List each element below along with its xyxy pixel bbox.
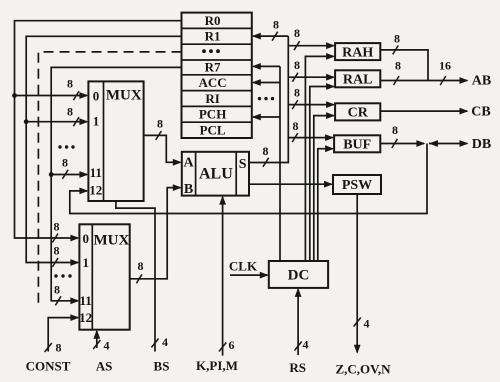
svg-text:4: 4 [162,335,168,349]
ellipsis upper MUX inputs [58,145,74,148]
svg-text:8: 8 [54,283,60,297]
svg-text:RI: RI [205,91,219,106]
arrowhead into register PCH [252,114,261,121]
svg-text:8: 8 [67,105,73,119]
arrowhead into register R1 [252,33,261,40]
ALU right divider [235,152,237,196]
slash lower MUX in 1 [52,258,58,267]
arrowhead into PSW [324,181,333,188]
slash MUX to B [136,274,142,283]
svg-text:8: 8 [157,117,163,131]
svg-text:1: 1 [83,255,90,270]
svg-text:CLK: CLK [229,259,258,274]
svg-text:8: 8 [294,58,300,72]
wire RS to DC [297,289,299,355]
svg-text:S: S [239,157,247,172]
svg-text:0: 0 [83,231,90,246]
arrowhead into lower MUX 0 [70,235,79,242]
svg-text:RS: RS [289,360,306,375]
slash S to CR [292,100,298,109]
arrowhead into ALU A [173,159,182,166]
svg-text:8: 8 [56,341,62,355]
CR box [335,103,380,120]
wire ALU flags to PSW [249,183,332,185]
ALU left divider [195,152,197,196]
arrowhead into upper MUX 0 [79,92,88,99]
DB feedback wire to upper MUX input 12 [70,144,427,214]
wire upper MUX output to ALU A [144,135,181,162]
arrowhead into RAL lower [326,83,335,90]
slash RS [295,342,302,351]
dashed wire R2..R6 wrap [38,52,181,304]
svg-text:8: 8 [138,259,144,273]
arrowhead into register R7 [252,63,261,70]
wire BUF output to DB node [380,143,424,145]
wire R0 wrap to lower MUX input 0 [15,21,182,238]
svg-text:DB: DB [472,137,491,152]
DC control wire 2 to RAL [310,87,334,262]
svg-text:4: 4 [303,338,309,352]
arrowhead DB right [460,140,469,147]
svg-text:11: 11 [79,293,91,308]
arrowhead into CR lower [326,112,335,119]
svg-text:MUX: MUX [106,88,142,104]
wire S bus branch to BUF [288,137,332,139]
ellipsis RI row [258,97,274,100]
arrowhead into lower MUX 1 [70,259,79,266]
svg-text:1: 1 [93,113,100,128]
junction dot R7/upper MUX 11 [49,172,54,177]
slash S to RAL [292,73,298,82]
register file box [182,13,252,138]
arrowhead into BUF upper [325,134,334,141]
arrowhead into register ACC [252,79,261,86]
arrowhead CLK into DC [260,272,269,279]
svg-text:ACC: ACC [199,75,227,90]
register ... row label [202,49,220,53]
arrowhead into RAH lower [326,53,335,60]
arrowhead into RAH upper [326,42,335,49]
wire CR output to CB [380,110,467,112]
slash CONST [45,343,52,352]
wire bus to register ACC [253,82,280,84]
wire K,PI,M to ALU bottom [222,197,224,356]
svg-text:CB: CB [471,105,490,120]
svg-text:8: 8 [392,123,398,137]
slash AS [93,340,100,349]
svg-text:11: 11 [90,165,102,180]
arrowhead into upper MUX 11 [79,171,88,178]
svg-text:PCL: PCL [200,122,226,137]
arrowhead into RAL upper [326,74,335,81]
svg-text:8: 8 [273,18,279,32]
svg-text:0: 0 [93,88,100,103]
arrowhead into upper MUX 1 [79,118,88,125]
svg-text:8: 8 [54,244,60,258]
lower MUX box [79,224,129,329]
arrowhead flags down [354,345,361,354]
wire R7 wrap to lower MUX input 11 [51,67,181,300]
arrowhead AS into lower MUX bottom [93,330,100,339]
wire RAH output [380,50,428,81]
slash ALU S [263,158,269,167]
ALU box [182,152,249,196]
svg-text:8: 8 [395,59,401,73]
upper MUX box [88,81,143,201]
svg-text:AS: AS [96,359,113,374]
arrowhead into ALU B [173,184,182,191]
slash RAL out [394,76,400,85]
svg-text:A: A [184,155,195,170]
slash upper MUX in 1 [73,117,79,126]
slash RAH out [393,45,399,54]
svg-text:8: 8 [294,26,300,40]
arrowhead DB left [429,140,438,147]
slash S to RAH [294,41,300,50]
DC box [269,261,328,288]
svg-text:BS: BS [154,359,170,374]
register file row dividers [182,28,252,122]
svg-text:RAL: RAL [343,73,373,88]
PSW box [333,175,381,194]
svg-text:4: 4 [364,317,370,331]
svg-text:PCH: PCH [199,107,226,122]
junction dot R1/upper MUX 1 [24,119,29,124]
BUF box [334,135,380,152]
wire branch to upper MUX input 0 [15,95,88,97]
svg-text:8: 8 [67,77,73,91]
svg-text:DC: DC [288,267,310,283]
wire AS select to lower MUX [96,331,98,348]
junction dot R0/upper MUX 0 [12,93,17,98]
svg-text:8: 8 [263,144,269,158]
arrowhead into CR upper [326,101,335,108]
slash upper MUX in 0 [73,91,79,100]
arrowhead into lower MUX 11 [70,297,79,304]
svg-text:6: 6 [229,338,235,352]
wire branch to upper MUX input 1 [26,121,87,123]
RAH box [335,43,380,60]
svg-text:R0: R0 [205,13,221,28]
slash K,PI,M [219,343,226,352]
wire R1 wrap to lower MUX input 1 [26,36,181,262]
arrowhead AB [460,77,469,84]
slash lower MUX in 11 [55,296,61,305]
slash AB 16 [440,76,446,85]
upper MUX divider [103,81,105,201]
slash upper MUX in 11 [63,170,69,179]
svg-text:MUX: MUX [93,232,129,248]
svg-text:CONST: CONST [26,359,71,374]
ellipsis lower MUX inputs [54,274,71,277]
CLK wire [230,274,267,276]
wire BS select to upper MUX [116,201,155,352]
PSW flags output wire [356,194,358,352]
wire S bus branch to RAL [288,76,333,78]
DC control wire 3 to CR [314,116,334,261]
svg-text:12: 12 [89,183,102,198]
svg-text:R7: R7 [205,60,221,75]
svg-text:R1: R1 [205,29,221,44]
arrowhead K,PI,M into ALU [219,196,226,205]
svg-text:8: 8 [294,86,300,100]
DC control wire 4 to BUF [318,149,333,261]
svg-text:AB: AB [472,74,491,89]
svg-text:K,PI,M: K,PI,M [196,358,238,373]
svg-text:ALU: ALU [199,165,233,182]
wire S bus branch to CR [288,104,333,106]
wire lower MUX output to ALU B [130,188,181,279]
internal bus vertical to DC [279,66,281,261]
slash S to BUF [292,133,298,142]
wire branch to upper MUX input 11 [51,174,87,176]
svg-text:B: B [184,182,193,197]
slash MUX to A [156,131,162,140]
bidirectional DB wire [429,143,467,145]
svg-text:8: 8 [293,119,299,133]
svg-text:4: 4 [104,339,110,353]
slash lower MUX in 0 [52,234,58,243]
slash S to R1 [272,32,278,41]
wire S bus to register R1 [253,35,288,37]
wire ALU S output to S bus [249,36,288,162]
arrowhead RS into DC [295,288,302,297]
DC control wire 1 to RAH [305,56,333,261]
RAL box [335,70,380,87]
svg-text:8: 8 [54,220,60,234]
svg-text:16: 16 [439,59,451,73]
slash BUF out [392,139,398,148]
svg-text:RAH: RAH [342,45,373,60]
arrowhead into upper MUX 12 [79,188,88,195]
slash Z,C,OV,N [354,318,361,327]
svg-text:Z,C,OV,N: Z,C,OV,N [335,362,391,377]
arrowhead CONST into lower MUX 12 [70,314,79,321]
slash BS [151,339,158,348]
wire RAL output to AB [380,80,467,82]
arrowhead into BUF lower [325,145,334,152]
arrowhead BUF to node [416,140,425,147]
svg-text:12: 12 [79,310,92,325]
svg-text:8: 8 [394,32,400,46]
wire bus to register R7 [253,65,280,67]
wire S bus branch to RAH [288,45,333,47]
svg-text:PSW: PSW [342,178,372,193]
svg-text:CR: CR [348,106,369,121]
svg-text:BUF: BUF [343,138,371,153]
svg-text:8: 8 [62,156,68,170]
wire CONST to lower MUX input 12 [48,318,78,352]
arrowhead CB [460,108,469,115]
wire bus to register PCH [253,116,280,118]
lower MUX divider [91,224,93,329]
